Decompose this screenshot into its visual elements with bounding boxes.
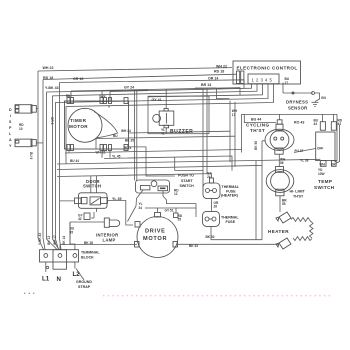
svg-text:FUSE: FUSE	[226, 220, 236, 224]
svg-text:MOTOR: MOTOR	[143, 236, 167, 242]
svg-text:TIMER: TIMER	[70, 118, 87, 123]
svg-text:WH 22: WH 22	[43, 66, 54, 70]
svg-text:RO 43: RO 43	[294, 121, 304, 125]
svg-text:OR 9: OR 9	[50, 117, 54, 125]
svg-text:10: 10	[19, 127, 23, 131]
svg-text:BK 13: BK 13	[47, 236, 51, 245]
svg-text:V-22: V-22	[99, 94, 106, 98]
svg-text:N: N	[57, 276, 62, 283]
svg-text:SENSOR: SENSOR	[288, 106, 307, 111]
svg-text:43: 43	[338, 122, 342, 126]
svg-text:RD 18: RD 18	[43, 76, 53, 80]
svg-text:YL 35: YL 35	[112, 197, 122, 201]
svg-text:GY 51: GY 51	[165, 209, 174, 213]
svg-text:ELECTRONIC CONTROL: ELECTRONIC CONTROL	[237, 66, 298, 71]
svg-text:42: 42	[78, 217, 82, 221]
svg-text:26: 26	[214, 205, 218, 209]
svg-text:SWITCH: SWITCH	[83, 184, 101, 189]
svg-text:BU 44: BU 44	[70, 159, 79, 163]
svg-text:17: 17	[285, 81, 289, 85]
svg-text:55: 55	[282, 202, 286, 206]
svg-text:TERMINAL: TERMINAL	[81, 251, 100, 255]
svg-text:GROUND: GROUND	[76, 280, 92, 284]
svg-text:55: 55	[178, 218, 182, 222]
svg-text:BU 44: BU 44	[251, 118, 261, 122]
svg-text:BK 35: BK 35	[125, 139, 134, 143]
svg-text:12345: 12345	[252, 78, 274, 83]
svg-text:10W: 10W	[318, 172, 325, 176]
svg-text:BK: BK	[66, 94, 71, 98]
svg-text:OR 14: OR 14	[208, 77, 218, 81]
svg-text:L2: L2	[73, 271, 81, 278]
svg-text:(HEATER): (HEATER)	[221, 194, 239, 198]
svg-text:PUSH TO: PUSH TO	[178, 174, 194, 178]
svg-text:Y-BK 43: Y-BK 43	[45, 86, 59, 90]
svg-text:56: 56	[280, 161, 284, 165]
svg-text:L1: L1	[42, 276, 50, 283]
svg-text:BK 53: BK 53	[189, 244, 198, 248]
svg-text:Y-BK 43: Y-BK 43	[38, 233, 42, 245]
svg-text:SWITCH: SWITCH	[180, 184, 195, 188]
svg-text:D: D	[9, 108, 12, 112]
svg-text:DRYNESS: DRYNESS	[286, 100, 308, 105]
svg-text:TEMP: TEMP	[318, 179, 332, 184]
svg-text:BU 9: BU 9	[29, 152, 33, 159]
svg-text:44: 44	[314, 122, 318, 126]
svg-text:A: A	[9, 138, 12, 142]
svg-text:MOTOR: MOTOR	[69, 124, 88, 129]
svg-text:GY 41: GY 41	[152, 98, 162, 102]
svg-text:34: 34	[139, 206, 143, 210]
svg-text:TH'ST: TH'ST	[250, 128, 265, 133]
svg-text:YL 38: YL 38	[300, 159, 309, 163]
svg-text:TH'ST: TH'ST	[293, 195, 304, 199]
svg-text:I: I	[10, 114, 11, 118]
svg-text:BR 13: BR 13	[201, 83, 211, 87]
svg-text:PU 57: PU 57	[295, 149, 304, 153]
svg-text:BU: BU	[113, 134, 118, 138]
svg-text:START: START	[181, 179, 194, 183]
svg-text:BK 52: BK 52	[206, 235, 215, 239]
svg-text:WH 17: WH 17	[53, 235, 57, 245]
svg-text:12: 12	[174, 192, 178, 196]
svg-text:HEATER: HEATER	[268, 229, 289, 234]
svg-text:17: 17	[232, 113, 236, 117]
svg-text:BK 14: BK 14	[62, 236, 66, 245]
svg-text:OR: OR	[331, 163, 336, 167]
svg-text:CYCLING: CYCLING	[246, 123, 269, 128]
svg-text:GY 24: GY 24	[124, 86, 134, 90]
svg-text:WH 34: WH 34	[121, 129, 131, 133]
svg-text:OFF: OFF	[317, 147, 323, 151]
svg-text:DRIVE: DRIVE	[145, 229, 166, 235]
svg-text:SWITCH: SWITCH	[314, 185, 335, 190]
svg-text:WH: WH	[320, 163, 326, 167]
svg-text:GN: GN	[321, 96, 326, 100]
svg-text:BK 56: BK 56	[254, 141, 258, 150]
svg-text:BLOCK: BLOCK	[81, 256, 94, 260]
svg-text:WH 22: WH 22	[216, 65, 227, 69]
svg-text:OR 16: OR 16	[73, 77, 83, 81]
svg-text:RD 18: RD 18	[214, 70, 224, 74]
svg-text:HI- LIMIT: HI- LIMIT	[290, 189, 306, 193]
svg-text:41: 41	[161, 131, 165, 135]
svg-text:LAMP: LAMP	[103, 238, 116, 243]
svg-text:STRAP: STRAP	[78, 285, 91, 289]
